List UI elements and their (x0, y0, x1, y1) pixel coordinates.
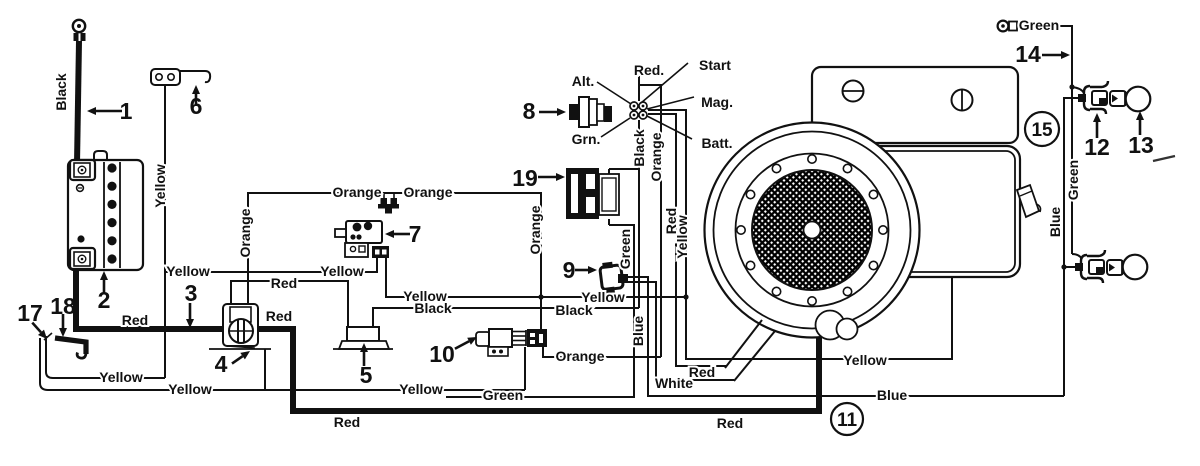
svg-text:Black: Black (631, 129, 647, 167)
svg-text:Black: Black (555, 302, 593, 318)
svg-text:Yellow: Yellow (674, 215, 690, 259)
svg-text:10: 10 (429, 341, 455, 367)
svg-text:Yellow: Yellow (99, 369, 143, 385)
svg-text:Green: Green (1065, 160, 1081, 200)
svg-text:Orange: Orange (527, 205, 543, 254)
svg-text:Black: Black (414, 300, 452, 316)
svg-text:15: 15 (1031, 120, 1053, 141)
svg-text:Orange: Orange (332, 184, 381, 200)
svg-text:7: 7 (409, 221, 422, 247)
svg-text:8: 8 (523, 98, 536, 124)
svg-text:6: 6 (190, 93, 203, 119)
svg-text:Orange: Orange (403, 184, 452, 200)
svg-text:12: 12 (1084, 134, 1110, 160)
svg-text:Green: Green (483, 387, 523, 403)
svg-text:17: 17 (17, 300, 43, 326)
svg-text:13: 13 (1128, 132, 1154, 158)
svg-text:Yellow: Yellow (152, 164, 168, 208)
svg-text:1: 1 (120, 98, 133, 124)
svg-text:Batt.: Batt. (701, 135, 732, 151)
svg-text:Blue: Blue (630, 316, 646, 347)
svg-text:9: 9 (563, 257, 576, 283)
svg-text:Blue: Blue (877, 387, 908, 403)
svg-text:Yellow: Yellow (320, 263, 364, 279)
svg-text:4: 4 (215, 351, 228, 377)
svg-text:18: 18 (50, 293, 76, 319)
svg-text:11: 11 (837, 410, 858, 431)
svg-text:Red: Red (271, 275, 297, 291)
svg-text:Yellow: Yellow (843, 352, 887, 368)
svg-text:Mag.: Mag. (701, 94, 733, 110)
svg-text:Red: Red (689, 364, 715, 380)
svg-text:Orange: Orange (648, 132, 664, 181)
svg-text:Blue: Blue (1047, 207, 1063, 238)
svg-text:White: White (655, 375, 693, 391)
svg-text:Green: Green (617, 229, 633, 269)
svg-text:Yellow: Yellow (168, 381, 212, 397)
svg-text:Red: Red (266, 308, 292, 324)
svg-text:Yellow: Yellow (166, 263, 210, 279)
svg-text:5: 5 (360, 362, 373, 388)
svg-text:Red.: Red. (634, 62, 664, 78)
svg-text:Black: Black (53, 73, 69, 111)
svg-text:2: 2 (98, 287, 111, 313)
svg-text:19: 19 (512, 165, 538, 191)
svg-text:Green: Green (1019, 17, 1059, 33)
svg-text:Red: Red (334, 414, 360, 430)
svg-text:14: 14 (1015, 41, 1041, 67)
svg-text:Yellow: Yellow (399, 381, 443, 397)
svg-text:Grn.: Grn. (572, 131, 601, 147)
svg-text:Orange: Orange (237, 208, 253, 257)
svg-text:Alt.: Alt. (572, 73, 595, 89)
svg-text:Red: Red (122, 312, 148, 328)
svg-text:Orange: Orange (555, 348, 604, 364)
svg-text:3: 3 (185, 280, 198, 306)
svg-text:Start: Start (699, 57, 731, 73)
svg-text:Red: Red (717, 415, 743, 431)
